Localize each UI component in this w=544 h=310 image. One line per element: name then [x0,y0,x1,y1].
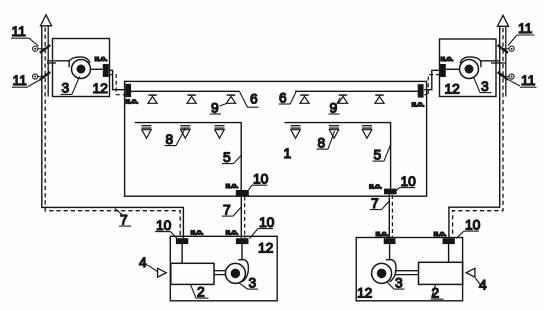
supply unit box top-right [440,39,497,97]
exhaust grille 9 right c [375,95,384,103]
label 11 top-left [11,24,39,46]
fan 3 bottom-right [372,260,396,284]
label n.o. bottom-left unit right [226,228,239,237]
label 10 room-bottom right [396,174,416,191]
label 10 bottom-left unit left [155,218,177,239]
label 7 inner-left [222,203,241,218]
damper n.o. bottom-right unit left [384,238,396,244]
valve 11 upper-left tick [40,45,50,53]
label n.o. top-left unit [95,54,108,63]
damper n.o. exhaust duct right [418,84,424,97]
label 9 right [329,98,341,116]
wire 7 inner-left solid [240,196,242,239]
label 12 top-left [93,81,108,96]
unit box bottom-left [170,236,277,300]
valve 11 lower-left tick [40,72,50,80]
supply diffuser 8 right b [329,126,339,139]
supply duct 5 left [135,123,241,190]
supply unit box top-left [53,39,110,97]
exhaust shaft right right-wall [505,26,507,96]
svg-text:11: 11 [13,73,27,88]
svg-text:н.о.: н.о. [434,229,447,238]
svg-text:3: 3 [395,276,403,291]
label 4 left [139,255,157,272]
label 7 far-left [115,209,131,228]
svg-text:11: 11 [521,73,535,88]
exhaust grille 9 right a [300,95,309,103]
fan 3 top-left [69,57,90,79]
damper n.o. room-bottom right [384,189,397,195]
svg-text:12: 12 [445,82,460,97]
svg-text:3: 3 [481,79,489,94]
connector wire dashed top-right [424,75,440,95]
label 9 left [210,101,227,116]
label 3 bottom-left [239,276,259,291]
svg-text:9: 9 [330,101,338,116]
svg-text:3: 3 [249,276,257,291]
valve 11 lower-right tick [498,72,508,80]
svg-text:7: 7 [120,213,128,228]
label n.o. bottom-right unit right [434,229,447,238]
svg-text:7: 7 [223,203,231,218]
label n.o. exhaust right [412,100,425,109]
svg-text:10: 10 [259,215,275,230]
label n.o. exhaust left [126,97,139,106]
fan suction duct from shaft top-left [47,61,69,63]
svg-text:6: 6 [250,92,258,107]
exhaust arrow top-left [40,15,51,26]
label 3 top-right [474,77,492,94]
label 12 top-right [445,82,460,97]
damper n.o. bottom-left unit right [236,238,249,244]
valve 11 lower-right actuator [502,74,514,79]
air intake 4 left [158,268,167,277]
label 4 right [475,278,487,293]
svg-text:10: 10 [401,174,417,189]
connector wire solid top-right [424,70,440,89]
svg-text:10: 10 [253,172,269,187]
supply diffuser 8 left c [215,126,225,139]
wire damper to fan bottom-left [241,244,243,260]
duct heater-fan bottom-left [214,271,226,275]
exhaust duct 6 right [295,90,418,92]
svg-text:10: 10 [156,218,172,233]
svg-text:4: 4 [139,255,147,270]
exhaust arrow top-right [497,15,508,26]
wire 7 inner-left dashed [244,197,246,239]
exhaust shaft right left-wall / line 7 right run [449,26,500,238]
svg-text:н.о.: н.о. [441,54,454,63]
svg-text:н.о.: н.о. [369,182,382,191]
label 6 right [279,91,297,106]
valve 11 upper-left actuator [33,46,45,51]
label n.o. room-bottom right [369,182,382,191]
label 11 top-right [508,21,535,46]
label 3 top-left [61,77,80,96]
svg-text:5: 5 [223,150,231,165]
label 10 bottom-right unit [456,218,481,239]
label 11 mid-right [508,73,537,88]
damper n.o. bottom-right unit right [443,238,455,244]
svg-text:н.о.: н.о. [226,181,239,190]
connector wire dashed top-left [109,75,126,95]
room 1 rectangle [125,81,427,196]
svg-text:5: 5 [374,148,382,163]
svg-text:8: 8 [318,136,326,151]
fan 3 bottom-left [225,260,248,284]
heater 2 bottom-left [171,263,214,284]
fan outlet wire top-right [446,68,460,70]
exhaust shaft left wall / line 7 left run [42,26,184,239]
svg-text:3: 3 [62,81,70,96]
damper n.o. bottom-left unit left [176,238,188,244]
svg-text:8: 8 [166,132,174,147]
svg-text:11: 11 [12,24,26,39]
svg-text:7: 7 [371,196,379,211]
label 2 bottom-left [191,285,209,300]
label 12 bottom-right [357,286,372,301]
label n.o. top-right unit [441,54,454,63]
exhaust grille 9 left b [187,95,196,103]
svg-text:9: 9 [211,101,219,116]
label n.o. room-bottom left [226,181,239,190]
label 7 right [370,196,389,211]
label n.o. bottom-left unit left [191,228,204,237]
wire damper to fan bottom-right [389,244,391,260]
wire 7 inner-right dashed [391,195,393,238]
connector wire solid top-left [109,70,126,89]
label 3 bottom-right [387,276,405,291]
svg-text:12: 12 [93,81,108,96]
exhaust shaft right dashed [453,28,503,238]
supply diffuser 8 right a [291,126,301,139]
svg-text:12: 12 [258,241,273,256]
label 5 left [222,150,241,165]
svg-text:н.о.: н.о. [191,228,204,237]
label 5 right [373,144,392,163]
valve 11 upper-right tick [498,45,508,53]
wire 7 inner-right solid [388,194,390,238]
svg-text:2: 2 [197,285,205,300]
fan 3 top-right [460,57,481,79]
label 11 mid-left [12,73,40,88]
wire damper to heater bottom-left [181,244,183,263]
duct fan-heater bottom-right [395,271,419,275]
exhaust grille 9 left a [148,95,157,103]
label n.o. bottom-right unit left [376,229,389,238]
svg-text:н.о.: н.о. [226,228,239,237]
svg-text:н.о.: н.о. [95,54,108,63]
exhaust duct 6 left [131,90,240,92]
exhaust shaft left dashed line 7 [45,28,180,239]
exhaust grille 9 right b [338,95,347,103]
label 12 bottom-left [258,241,273,256]
unit box bottom-right [356,238,462,301]
supply duct 5 right [285,123,391,189]
svg-text:н.о.: н.о. [376,229,389,238]
label 2 bottom-right [431,285,444,301]
supply diffuser 8 right c [362,126,372,139]
label 10 room-bottom left [249,172,269,190]
svg-text:н.о.: н.о. [126,97,139,106]
heater 2 bottom-right [419,262,463,284]
damper n.o. on top-left unit [103,64,109,77]
damper n.o. room-bottom left [236,190,249,196]
svg-text:12: 12 [357,286,372,301]
svg-text:6: 6 [279,91,287,106]
wire damper to heater bottom-right [448,244,450,262]
svg-text:н.о.: н.о. [412,100,425,109]
damper n.o. on top-right unit [440,64,446,77]
label 6 left [240,92,259,108]
label 1 room [284,146,292,161]
svg-text:1: 1 [284,146,292,161]
valve 11 upper-right actuator [502,46,514,51]
valve 11 lower-left actuator [33,74,45,79]
svg-text:11: 11 [518,21,532,36]
damper n.o. exhaust duct left [125,84,131,97]
fan suction duct from shaft top-right [481,61,505,63]
label 8 left [165,129,186,147]
exhaust shaft left right wall [47,26,49,97]
supply diffuser 8 left b [180,126,190,139]
supply diffuser 8 left a [142,126,152,139]
label 10 bottom-left unit right [250,215,275,239]
fan outlet wire top-left [90,68,103,70]
air intake 4 right [466,268,475,277]
label 8 right [317,131,335,151]
svg-text:10: 10 [465,218,481,233]
exhaust grille 9 left c [226,95,235,103]
